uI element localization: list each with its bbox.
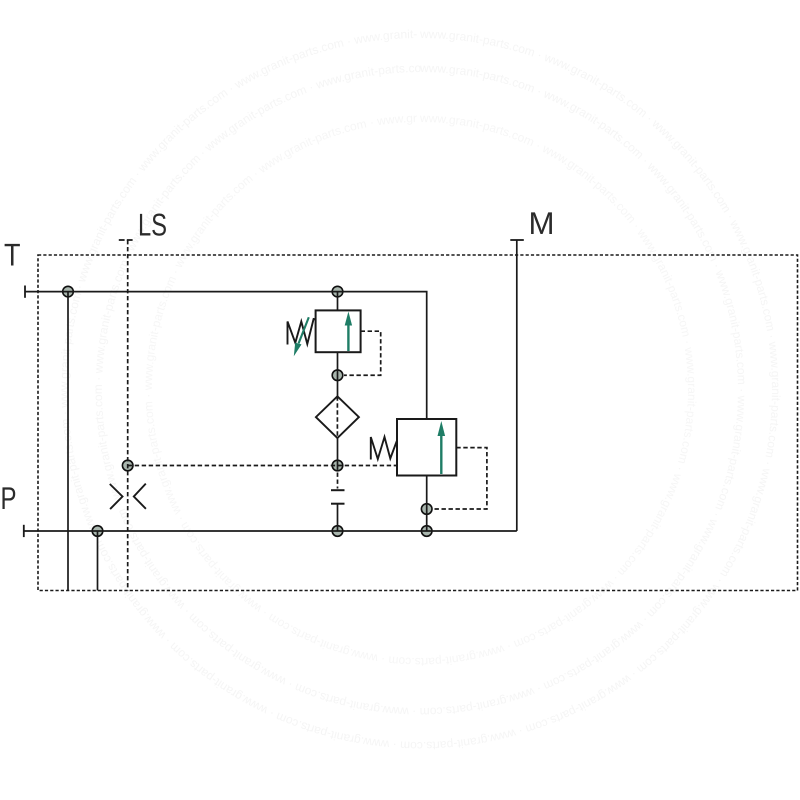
plugged line symbol (331, 466, 345, 532)
port tick LS (119, 239, 133, 241)
junction node P-plug (332, 526, 343, 537)
wire valve V1 bottom to node (337, 352, 339, 396)
valve V2 flow arrow (438, 421, 446, 474)
junction node LS-filter (332, 460, 343, 471)
enclosure dashed border (38, 255, 798, 591)
orifice chevrons on LS line (110, 484, 146, 510)
port tick M (510, 239, 524, 241)
valve V1 adjustment arrow (294, 317, 309, 356)
junction node T-left (63, 286, 74, 297)
valve V1 spring (288, 319, 316, 345)
junction node P-valve2 (421, 526, 432, 537)
wire diamond bottom to LS node (337, 438, 339, 466)
port tick P (23, 525, 25, 537)
pilot line LS vertical (dashed) (127, 240, 129, 591)
junction node below valve1 (332, 370, 343, 381)
label LS (140, 214, 166, 236)
filter centerline dashed (336, 396, 338, 438)
wire P to bottom border (97, 531, 99, 591)
wire valve V1 top (337, 292, 339, 311)
wire T to bottom border (67, 292, 69, 591)
junction node pilot V2 (421, 504, 432, 515)
junction node LS line (122, 460, 133, 471)
wire P line (24, 530, 517, 532)
valve V1 flow arrow (345, 312, 352, 352)
wire T line (25, 292, 427, 419)
junction node T-valve1 (332, 286, 343, 297)
port tick T (24, 286, 26, 298)
junction node P-left (92, 526, 103, 537)
wire M vertical (516, 240, 518, 531)
label T (5, 244, 20, 266)
label M (531, 212, 552, 234)
valve V1 relief body (316, 310, 361, 352)
filter diamond (316, 396, 359, 438)
pilot dashed loop V1 (344, 331, 381, 375)
valve V2 spring (371, 437, 397, 460)
pilot dashed loop V2 (433, 448, 487, 509)
valve V2 relief body (397, 419, 456, 476)
wire valve V2 bottom to P (426, 476, 428, 532)
pilot dashed LS branch (128, 465, 397, 467)
label P (2, 487, 15, 509)
